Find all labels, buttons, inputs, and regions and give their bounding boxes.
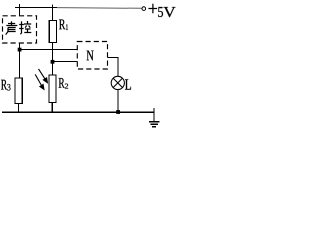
node B junction dot	[51, 60, 55, 64]
wire lamp to bottom rail	[117, 89, 119, 112]
label 声 (sheng)	[6, 21, 17, 31]
wire corner down to lamp	[117, 58, 119, 77]
photoresistor R2 body	[49, 75, 56, 103]
ground bar 1	[149, 121, 160, 123]
label 控 (kong)	[19, 21, 31, 33]
junction dot lamp/bottom rail	[116, 110, 120, 114]
lamp L cross stroke 1	[113, 78, 122, 87]
resistor R3	[15, 78, 22, 103]
wire R1 bottom through crossover to node B	[52, 43, 54, 75]
photoresistor R2 light arrow 2	[35, 74, 44, 89]
ground bar 2	[151, 123, 158, 125]
photoresistor R2 light arrow 1	[39, 69, 48, 83]
lamp L symbol circle	[111, 76, 124, 89]
label 控 diagonal strokes	[20, 26, 30, 35]
wire R3 to bottom rail	[18, 103, 20, 112]
control module N dashed box	[77, 42, 107, 70]
wire N output to corner	[108, 57, 119, 59]
wire R2 to bottom rail	[51, 103, 53, 112]
wire node B to N box input 2	[53, 61, 78, 63]
label 声 falling tail	[6, 32, 8, 35]
wire node A to N box input 1	[20, 49, 78, 51]
wire stub from rail down to sound-control box	[19, 4, 21, 16]
label +5V	[148, 4, 157, 14]
resistor R1	[49, 21, 56, 43]
node A junction dot	[18, 48, 22, 52]
top rail right segment	[57, 7, 142, 10]
terminal circle +5V	[142, 7, 146, 11]
label R3	[1, 80, 7, 90]
sound-control module dashed box	[3, 16, 37, 43]
ground stub	[153, 108, 155, 121]
label R1	[59, 20, 65, 30]
label L	[125, 79, 131, 89]
wire node A down to R3	[19, 50, 21, 78]
label N	[87, 51, 94, 61]
label R2	[59, 78, 65, 88]
lamp L cross stroke 2	[113, 78, 122, 87]
top rail +5V	[15, 7, 57, 9]
wire stub from rail down to R1	[52, 4, 54, 20]
wire from sound-control box down to node A	[19, 43, 21, 50]
ground bar 3	[152, 126, 156, 128]
bottom rail	[2, 111, 155, 113]
